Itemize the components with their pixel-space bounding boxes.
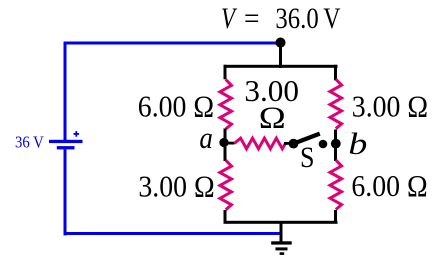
label V = 36.0 V [221, 2, 341, 35]
wire ground stem [280, 221, 283, 243]
ground [271, 241, 292, 255]
wire right to node b [334, 130, 337, 144]
wire box bottom [224, 221, 338, 224]
svg-text:V: V [221, 2, 238, 35]
wire left blue vertical lower [64, 149, 67, 235]
battery B1 [49, 131, 83, 149]
wire box top [224, 65, 338, 68]
node V (top node dot) [275, 38, 285, 48]
wire box right lower stub [334, 210, 337, 224]
svg-text:3.00 Ω: 3.00 Ω [352, 89, 428, 124]
node b [331, 139, 341, 149]
wire stem from top node to box [279, 43, 282, 68]
resistor R1 6.00 Ohm (left top) [220, 80, 232, 130]
svg-text:a: a [199, 120, 213, 155]
wire left to node a [224, 129, 227, 144]
wire box left lower stub [224, 210, 227, 224]
svg-text:3.00 Ω: 3.00 Ω [138, 169, 214, 204]
resistor R3 3.00 Ohm (middle) [234, 138, 285, 149]
resistor R4 6.00 Ohm (right bottom) [330, 160, 342, 210]
wire stub middle resistor to switch [284, 142, 293, 145]
svg-text:=: = [244, 2, 260, 35]
wire a to lower left resistor [224, 143, 227, 161]
svg-text:6.00 Ω: 6.00 Ω [351, 168, 427, 203]
switch S [289, 134, 328, 149]
svg-text:S: S [300, 141, 315, 174]
svg-text:b: b [348, 126, 367, 161]
svg-text:V: V [323, 2, 340, 35]
resistor R2 3.00 Ohm (right top) [330, 79, 342, 129]
wire stub a to middle resistor [225, 142, 235, 145]
svg-text:6.00 Ω: 6.00 Ω [138, 88, 214, 123]
svg-text:36 V: 36 V [15, 133, 44, 152]
wire b to lower right resistor [334, 143, 337, 161]
wire top blue horizontal [64, 42, 281, 45]
resistor R5 3.00 Ohm (left bottom) [220, 160, 232, 210]
wire box left upper stub [224, 65, 227, 80]
svg-text:36.0: 36.0 [275, 2, 318, 35]
wire bottom blue horizontal [64, 232, 283, 235]
wire box right upper stub [334, 65, 337, 81]
svg-text:Ω: Ω [259, 100, 286, 135]
node a [219, 138, 228, 147]
wire left blue vertical upper [64, 42, 67, 141]
